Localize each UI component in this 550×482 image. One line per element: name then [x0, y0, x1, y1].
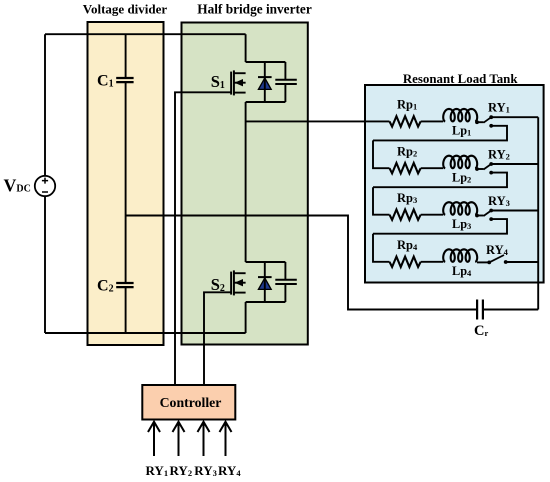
transistor S1 gate bar: [230, 72, 232, 95]
wire: inverter midpoint to tank: [246, 120, 390, 122]
transistor S2 body arrow: [235, 282, 246, 284]
relay RY3 (closed): [475, 209, 493, 221]
voltage divider box: [88, 22, 164, 345]
wire: branch 3 R-L link: [421, 214, 444, 216]
wire: RY2 lower contact cascade: [373, 173, 507, 188]
wire: bottom return rail: [45, 332, 246, 334]
wire: S1 drain feed: [245, 34, 247, 62]
wire: divider midpoint to Cr: [126, 216, 478, 310]
transistor S1 drain stub: [235, 72, 246, 74]
wire: RY4 to bus: [506, 261, 539, 263]
wire: divider upper leg: [125, 34, 127, 78]
wire: RY1 upper contact to bus: [491, 116, 538, 118]
capacitor Cr: [477, 300, 538, 320]
controller box: [142, 385, 235, 420]
transistor S1 source stub: [235, 92, 246, 94]
control input arrow RY3: [198, 422, 210, 456]
inductor Lp3: [443, 202, 477, 215]
relay RY2 (closed): [475, 162, 493, 174]
wire: half-bridge midpoint: [245, 102, 247, 262]
wire: S2 source return: [245, 302, 247, 333]
svg-text:Half bridge inverter: Half bridge inverter: [197, 2, 312, 17]
transistor S2 drain stub: [235, 272, 246, 274]
transistor S1 body arrow: [235, 82, 246, 84]
inductor Lp2: [443, 156, 477, 169]
wire: branch 3 input: [373, 187, 390, 215]
transistor S2 gate bar: [230, 272, 232, 295]
wire: branch 4 input: [373, 234, 390, 262]
wire: RY3 upper contact to bus: [491, 210, 538, 212]
diode D1: [258, 62, 272, 102]
inductor Lp4: [443, 249, 477, 261]
wire: RY1 lower contact cascade: [373, 126, 507, 141]
wire: top rail from VDC to S1 drain: [45, 33, 246, 35]
wire: tank output bus: [537, 117, 539, 309]
wire: S2 gate lead: [204, 292, 231, 385]
wire: S1 gate lead: [175, 92, 231, 385]
wire: divider middle leg: [125, 82, 127, 283]
relay RY1 (closed): [475, 115, 493, 127]
wire: RY2 upper contact to bus: [491, 163, 538, 165]
wire: branch 2 input: [373, 140, 390, 168]
resistor Rp1: [390, 116, 421, 126]
wire: branch 4 R-L link: [421, 261, 444, 263]
wire: S1 snubber loop: [246, 62, 286, 102]
voltage source VDC: [35, 176, 55, 196]
wire: RY3 lower contact cascade: [373, 219, 507, 234]
wire: branch 1 R-L link: [421, 120, 444, 122]
inductor Lp1: [443, 109, 477, 122]
capacitor across S1: [275, 80, 297, 84]
wire: VDC bottom lead: [44, 196, 46, 333]
svg-text:Voltage divider: Voltage divider: [83, 2, 168, 17]
resistor Rp4: [390, 257, 421, 267]
resistor Rp2: [390, 163, 421, 173]
wire: S2 snubber loop: [246, 262, 286, 302]
relay RY4 (open): [477, 255, 508, 264]
svg-text:Controller: Controller: [160, 395, 222, 410]
control input arrow RY1: [148, 422, 160, 456]
control input arrow RY2: [173, 422, 185, 456]
control input arrow RY4: [220, 422, 232, 456]
half bridge inverter box: [182, 23, 308, 345]
resistor Rp3: [390, 210, 421, 220]
transistor S2 channel bar: [233, 270, 235, 295]
transistor S1 channel bar: [233, 70, 235, 95]
transistor S2 source stub: [235, 292, 246, 294]
wire: divider lower leg: [125, 287, 127, 333]
capacitor across S2: [275, 280, 297, 284]
diode D2: [258, 262, 272, 302]
svg-text:Resonant Load Tank: Resonant Load Tank: [403, 72, 518, 86]
resonant load tank box: [365, 85, 544, 283]
capacitor C2: [116, 283, 133, 287]
wire: VDC top lead: [44, 34, 46, 176]
capacitor C1: [116, 78, 133, 82]
wire: branch 2 R-L link: [421, 167, 444, 169]
